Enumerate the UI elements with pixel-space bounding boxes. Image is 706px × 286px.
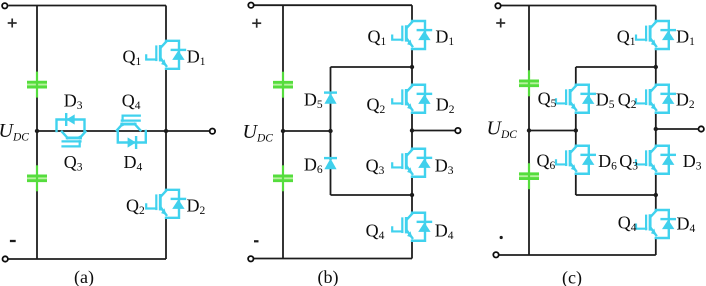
- wire (c) right leg seg2: [655, 49, 657, 85]
- transistor Q1 with diode D1 (c): [636, 21, 675, 49]
- svg-text:Q3: Q3: [619, 151, 638, 173]
- svg-text:Q1: Q1: [617, 27, 636, 49]
- node (c) Q1-Q2 junction: [654, 65, 658, 69]
- transistor Q4 with diode D4 (a): [117, 116, 146, 148]
- terminal (a) DC-: [2, 256, 7, 261]
- wire (c) right leg seg4: [655, 174, 657, 210]
- plus sign (b): [252, 19, 261, 28]
- wire (b) neutral link: [283, 130, 331, 132]
- capacitor C2 (b) lower: [273, 165, 293, 191]
- svg-text:Q2: Q2: [367, 95, 386, 117]
- node (b) DC midpoint: [281, 129, 285, 133]
- node (b) Q1-Q2 junction: [410, 65, 414, 69]
- transistor Q3 with diode D3 (b): [392, 149, 431, 177]
- node (c) Q5-Q6 junction: [574, 128, 578, 132]
- minus sign (c): [500, 236, 503, 239]
- wire (b) clamp column: [330, 67, 332, 195]
- svg-text:UDC: UDC: [243, 121, 274, 145]
- terminal (c) DC+: [495, 3, 500, 8]
- svg-text:Q1: Q1: [123, 47, 142, 69]
- svg-text:Q2: Q2: [618, 90, 637, 112]
- node (b) output junction: [410, 128, 414, 132]
- svg-text:D6: D6: [304, 155, 323, 177]
- wire (c) neutral link: [529, 130, 576, 132]
- transistor Q6 with diode D6 (c): [556, 146, 595, 174]
- wire (b) right leg seg4: [411, 177, 413, 213]
- svg-text:D6: D6: [598, 151, 617, 173]
- svg-text:Q2: Q2: [126, 196, 145, 218]
- plus sign (a): [8, 19, 17, 28]
- terminal (b) AC output: [455, 128, 460, 133]
- terminal (b) DC-: [248, 256, 253, 261]
- svg-text:Q1: Q1: [368, 27, 387, 49]
- wire (b) right leg seg5: [411, 241, 413, 259]
- svg-text:D1: D1: [187, 47, 206, 69]
- svg-text:UDC: UDC: [487, 118, 518, 142]
- svg-text:D3: D3: [64, 91, 83, 113]
- wire (b) right leg seg2: [411, 49, 413, 85]
- svg-text:Q4: Q4: [618, 213, 637, 235]
- svg-text:D2: D2: [676, 90, 695, 112]
- wire (b) bottom bus: [254, 258, 412, 260]
- wire (b) output lead: [412, 130, 455, 132]
- transistor Q5 with diode D5 (c): [556, 85, 595, 113]
- wire (a) bottom bus: [8, 258, 166, 260]
- transistor Q1 with diode D1 (a): [146, 41, 185, 69]
- node (c) Q3-Q4 junction: [654, 193, 658, 197]
- terminal (a) DC+: [2, 3, 7, 8]
- wire (b) top bus: [254, 4, 412, 6]
- wire (c) clamp column upper: [575, 67, 577, 85]
- wire (a) right leg lower: [165, 218, 167, 259]
- wire (b) right leg seg1: [411, 5, 413, 21]
- svg-text:Q3: Q3: [366, 156, 385, 178]
- wire (c) clamp top link: [576, 66, 656, 68]
- node (b) clamp neutral: [328, 129, 332, 133]
- wire (b) clamp bottom link: [331, 194, 413, 196]
- svg-text:Q4: Q4: [366, 221, 385, 243]
- svg-text:Q3: Q3: [64, 152, 83, 174]
- svg-text:(b): (b): [318, 267, 339, 286]
- minus sign (a): [10, 240, 16, 242]
- wire (c) clamp column middle: [575, 113, 577, 146]
- transistor Q4 with diode D4 (c): [636, 210, 675, 238]
- plus sign (c): [496, 19, 505, 28]
- transistor Q3 with diode D3 (a): [57, 114, 86, 146]
- terminal (c) DC-: [493, 252, 498, 257]
- wire (b) left rail: [282, 5, 284, 258]
- wire (b) clamp top link: [331, 66, 413, 68]
- svg-text:D5: D5: [304, 90, 323, 112]
- wire (b) right leg seg3: [411, 113, 413, 149]
- svg-text:UDC: UDC: [0, 120, 29, 144]
- svg-text:D3: D3: [435, 156, 454, 178]
- svg-text:D2: D2: [436, 95, 455, 117]
- terminal (b) DC+: [248, 2, 253, 7]
- svg-text:D1: D1: [435, 27, 454, 49]
- diode D6 clamp lower (b): [324, 158, 337, 169]
- transistor Q4 with diode D4 (b): [392, 213, 431, 241]
- wire (c) top bus: [501, 5, 656, 7]
- svg-text:(a): (a): [74, 267, 94, 286]
- wire (a) top bus: [8, 5, 166, 7]
- wire (a) right leg middle: [165, 69, 167, 190]
- capacitor C1 (c) upper: [519, 70, 539, 96]
- capacitor C1 (b) upper: [273, 72, 293, 98]
- svg-text:Q6: Q6: [537, 151, 556, 173]
- svg-text:D2: D2: [187, 196, 206, 218]
- svg-text:Q5: Q5: [538, 89, 557, 111]
- capacitor C2 (a) lower: [27, 165, 47, 191]
- terminal (c) AC output: [699, 126, 704, 131]
- terminal (a) AC output: [210, 129, 215, 134]
- svg-text:D5: D5: [596, 90, 615, 112]
- transistor Q1 with diode D1 (b): [392, 21, 431, 49]
- node (a) output junction: [164, 129, 168, 133]
- wire (c) bottom bus: [499, 254, 656, 256]
- svg-text:D3: D3: [683, 151, 702, 173]
- transistor Q2 with diode D2 (c): [636, 85, 675, 113]
- svg-text:D4: D4: [124, 152, 143, 174]
- svg-text:D4: D4: [435, 221, 454, 243]
- wire (c) right leg seg5: [655, 238, 657, 255]
- wire (c) left rail: [528, 6, 530, 256]
- transistor Q2 with diode D2 (a): [146, 190, 185, 218]
- diode D5 clamp upper (b): [324, 93, 337, 104]
- wire (c) right leg seg3: [655, 113, 657, 146]
- capacitor C2 (c) lower: [519, 163, 539, 189]
- transistor Q3 with diode D3 (c): [636, 146, 675, 174]
- svg-text:D1: D1: [676, 27, 695, 49]
- svg-text:(c): (c): [562, 268, 582, 286]
- node (a) DC midpoint: [35, 129, 39, 133]
- node (c) DC midpoint: [527, 128, 531, 132]
- transistor Q2 with diode D2 (b): [392, 85, 431, 113]
- minus sign (b): [254, 240, 259, 242]
- svg-text:D4: D4: [677, 214, 696, 236]
- node (b) Q3-Q4 junction: [410, 193, 414, 197]
- node (c) output junction: [654, 127, 658, 131]
- capacitor C1 (a) upper: [27, 72, 47, 98]
- wire (c) output lead: [656, 128, 699, 130]
- wire (c) right leg seg1: [655, 6, 657, 22]
- wire (c) clamp column lower: [575, 174, 577, 195]
- wire (a) left rail: [36, 6, 38, 260]
- svg-text:Q4: Q4: [122, 91, 141, 113]
- wire (a) right leg upper: [165, 6, 167, 41]
- wire (a) midpoint branch to output: [37, 130, 210, 132]
- wire (c) clamp bottom link: [576, 194, 656, 196]
